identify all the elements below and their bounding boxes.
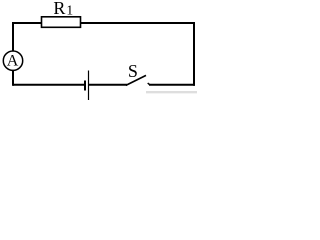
wire bottom-left horizontal [13, 84, 84, 86]
resistor R1 [42, 17, 81, 28]
wire bottom-right horizontal [149, 84, 195, 86]
wire top-right horizontal [81, 22, 194, 24]
switch S blade [126, 75, 146, 85]
wire left vertical upper [12, 22, 14, 51]
wire left vertical lower [12, 70, 14, 85]
ammeter A [3, 51, 22, 70]
svg-text:S: S [128, 61, 138, 81]
wire top-left horizontal [12, 22, 41, 24]
wire bottom battery-to-switch [89, 84, 127, 86]
faint scan shadow under bottom-right wire [146, 91, 197, 93]
battery cell: short plate (negative) [84, 81, 86, 91]
battery cell: long plate (positive) [88, 71, 90, 101]
wire right vertical [193, 22, 195, 86]
svg-text:R: R [53, 0, 65, 18]
svg-text:1: 1 [66, 3, 73, 18]
switch right contact hook [148, 83, 150, 85]
svg-text:A: A [7, 53, 19, 70]
